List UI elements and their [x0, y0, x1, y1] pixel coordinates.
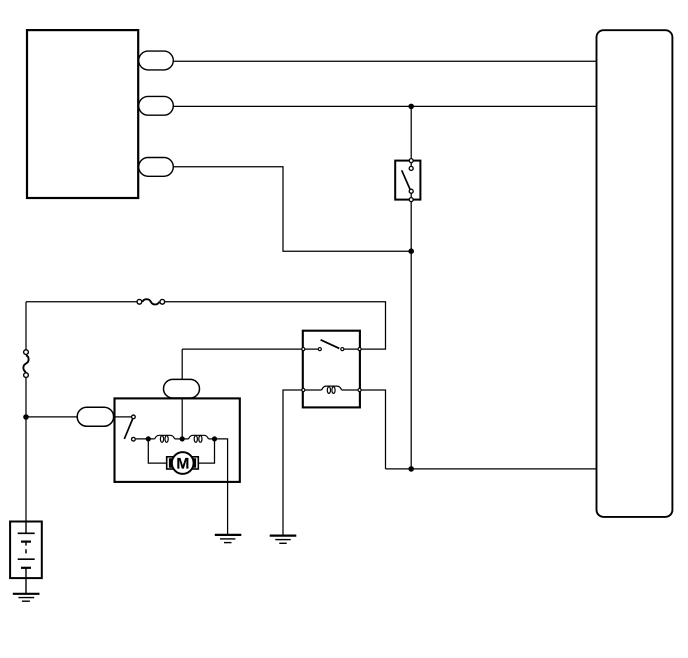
- connector pill C2 (motor unit top): [164, 379, 200, 398]
- junction: winding row centre tap: [180, 436, 185, 441]
- relay K1 coil winding: [322, 386, 342, 393]
- connector pill C1-2: [139, 96, 174, 115]
- motor unit box (washer motor assembly): [115, 398, 240, 482]
- switch S2 bottom terminal: [132, 437, 136, 441]
- motor M1 brush bracket left: [170, 459, 172, 466]
- ground G3 (relay coil): [270, 536, 297, 544]
- battery B1 cell link stub: [25, 542, 27, 546]
- junction node D (battery tap): [23, 414, 29, 420]
- wire W2 (control unit pin2 to right junction block): [173, 105, 596, 107]
- connector pill C1-1: [139, 51, 174, 70]
- wire: motor unit to ground G2: [215, 439, 228, 535]
- fuse F1 body (wavy element): [142, 299, 159, 304]
- wire: S2 bottom terminal to winding row: [136, 438, 155, 440]
- switch S2 blade (motor unit): [124, 419, 132, 439]
- connector pill C3 (motor unit left): [77, 407, 113, 426]
- motor M1 brush bracket right: [193, 459, 195, 466]
- junction: winding row right: [212, 436, 217, 441]
- battery B1 cell plate short (bottom): [21, 567, 31, 569]
- control unit box U1: [27, 30, 138, 198]
- wire: fused feed from left rail to fuse F1: [26, 301, 140, 303]
- junction block J/B (right): [597, 30, 673, 517]
- wire: relay K1 coil right terminal to node C: [360, 390, 386, 469]
- wire: motor M brush connections: [148, 439, 214, 463]
- junction node B: [408, 248, 414, 254]
- wire: relay K1 internal switch stubs: [303, 348, 359, 350]
- wire: winding row segment between L1 and centre tap: [175, 438, 189, 440]
- switch S1 box: [395, 161, 420, 200]
- wire: connector C2 down to motor winding centre tap: [181, 349, 183, 439]
- relay K1 coil terminal (left edge): [302, 388, 305, 391]
- battery B1 cell plate long (bottom): [18, 558, 35, 560]
- wire: left rail upper segment (to fuse F2): [25, 302, 27, 349]
- relay K1 switch terminal (right edge): [358, 348, 361, 351]
- motor M1 body: [167, 457, 199, 469]
- wire: motor unit feed up to relay K1 switch left terminal: [182, 348, 302, 350]
- wire: switch S1 bottom terminal down through node B to node C: [410, 194, 412, 469]
- wire: battery negative to ground G1: [25, 568, 27, 594]
- battery B1 cell plate short (top): [21, 540, 31, 542]
- switch S1 contact (top inner): [409, 166, 413, 170]
- junction node A: [408, 104, 414, 110]
- relay K1 switch blade: [321, 340, 340, 349]
- wire: left rail lower segment (fuse F2 to battery): [25, 378, 27, 522]
- connector pill C1-3: [139, 158, 174, 177]
- wire W4 (node C to right junction block): [386, 468, 597, 470]
- relay K1 coil terminal (right edge): [358, 388, 361, 391]
- junction node C: [408, 466, 414, 472]
- motor M1 letter M: [177, 458, 188, 469]
- motor M1 rotor circle: [172, 452, 194, 474]
- relay K1 box: [303, 331, 360, 408]
- wire: node A down to switch S1 top terminal: [410, 106, 412, 166]
- relay K1 switch contact (right inner): [341, 348, 344, 351]
- switch S1 terminal (bottom, on box edge): [409, 198, 413, 202]
- switch S1 terminal (top, on box edge): [409, 159, 413, 163]
- wire: relay K1 coil left terminal to ground G3: [283, 390, 305, 536]
- wire: fuse F1 to relay K1 switch right terminal: [162, 302, 386, 349]
- fuse F2 body (wavy element): [23, 355, 28, 372]
- relay K1 switch contact (left inner): [318, 348, 321, 351]
- battery B1 omitted-cells dash: [25, 549, 27, 553]
- ground G1 (battery): [13, 594, 40, 601]
- battery B1 internal conductor (top): [25, 522, 27, 534]
- wire: battery node to motor-unit connector and switch S2: [26, 416, 131, 418]
- switch S2 top terminal: [132, 415, 136, 419]
- switch S1 blade: [402, 170, 411, 189]
- junction: winding row left: [146, 436, 151, 441]
- wire: winding row segment after L2: [209, 438, 215, 440]
- fuse F2 top terminal: [24, 350, 29, 355]
- fuse F1 right terminal: [160, 299, 165, 304]
- fuse F1 left terminal: [137, 299, 142, 304]
- inductor L2 (motor field winding): [189, 435, 209, 442]
- wire: relay K1 internal coil stubs: [303, 389, 359, 391]
- wire W1 (control unit pin1 to right junction block): [173, 60, 596, 62]
- inductor L1 (motor field winding): [155, 435, 175, 442]
- fuse F2 bottom terminal: [24, 373, 29, 378]
- battery B1 cell plate long (top): [18, 532, 35, 534]
- relay K1 switch terminal (left edge): [302, 348, 305, 351]
- switch S1 contact (bottom inner): [409, 189, 413, 193]
- battery B1 case: [10, 522, 42, 579]
- ground G2 (motor unit): [215, 535, 242, 543]
- wire W3 (control unit pin3 to node B): [173, 167, 411, 251]
